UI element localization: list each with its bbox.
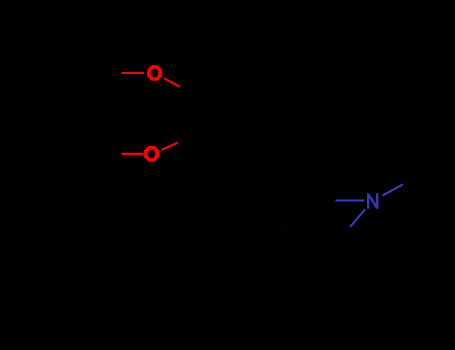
wire: vertical bond (280, 188, 282, 255)
bond N to CH3 (blue half) (383, 184, 404, 195)
bond N to C left (blue half) (336, 199, 365, 201)
wire: chain bottom-left (66, 162, 281, 288)
benzene ring (faint carbon skeleton) (194, 59, 278, 161)
bond O1 to ring (red half) (164, 78, 180, 87)
wire: methoxy carbon halves (87, 73, 428, 184)
wire: bottom ring bonds (281, 201, 350, 256)
atom O1 (147, 65, 162, 81)
bond O1 to CH3 (red half) (121, 72, 144, 74)
atom O2 (144, 146, 159, 162)
atom N (368, 193, 377, 208)
bond N to C down-left (blue half) (350, 209, 365, 227)
bond O2 to ring (red half) (161, 143, 178, 150)
wire: bond benzene to C alpha (239, 161, 281, 188)
bond O2 to CH3 (red half) (122, 153, 143, 155)
